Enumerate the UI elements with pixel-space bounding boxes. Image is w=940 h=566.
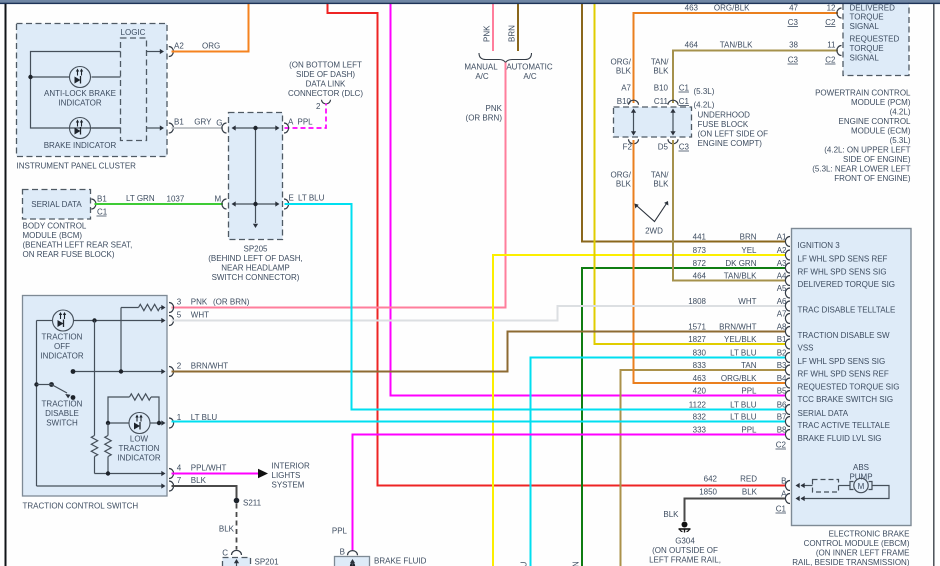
svg-text:B10: B10 — [654, 84, 669, 93]
fuse block cavity labels top — [617, 84, 715, 110]
interior lights system label — [272, 462, 310, 490]
low traction resistor loop — [108, 394, 159, 423]
svg-text:DATA LINK: DATA LINK — [306, 80, 346, 89]
labels manual/automatic A/C — [464, 63, 553, 82]
wire RED from top to EBCM pin B — [328, 4, 786, 486]
SP205 connector E — [284, 194, 325, 210]
svg-text:3: 3 — [177, 298, 182, 307]
svg-text:12: 12 — [827, 4, 836, 13]
svg-text:A2: A2 — [777, 246, 787, 255]
svg-text:MODULE (PCM): MODULE (PCM) — [851, 98, 911, 107]
svg-text:SYSTEM: SYSTEM — [272, 481, 305, 490]
svg-text:B: B — [340, 548, 345, 557]
SP205 connector G — [222, 123, 227, 133]
EBCM pin B3 row — [693, 361, 889, 379]
splice SP205 box — [229, 113, 283, 240]
wire PNK manual A/C drop — [492, 4, 494, 51]
SP205 junction node M/E row — [253, 202, 257, 206]
svg-text:A/C: A/C — [523, 72, 537, 81]
svg-text:YEL: YEL — [741, 246, 757, 255]
svg-text:G304: G304 — [675, 537, 695, 546]
svg-text:2: 2 — [316, 102, 321, 111]
traction control switch box — [23, 296, 168, 511]
svg-text:SWITCH CONNECTOR): SWITCH CONNECTOR) — [212, 273, 300, 282]
svg-text:LOGIC: LOGIC — [121, 28, 146, 37]
junction node on IPC anti-lock row — [28, 75, 32, 79]
fuse block connector F2 — [629, 139, 639, 144]
svg-text:830: 830 — [693, 349, 707, 358]
svg-text:UNDERHOOD: UNDERHOOD — [698, 111, 751, 120]
junction node pin2/resistor riser — [119, 369, 123, 373]
left page border — [5, 4, 7, 566]
svg-text:420: 420 — [693, 387, 707, 396]
wire YEL/BLK 1827 from top to EBCM B1 — [595, 4, 786, 344]
EBCM pin A7 row — [777, 310, 790, 324]
wire PPL 420 from top to EBCM B5 — [391, 4, 786, 396]
svg-text:MODULE (ECM): MODULE (ECM) — [851, 127, 911, 136]
svg-text:ABS: ABS — [853, 463, 869, 472]
svg-text:441: 441 — [693, 233, 707, 242]
svg-text:ENGINE CONTROL: ENGINE CONTROL — [838, 117, 911, 126]
wire GRY from IPC B1 to SP205 G — [172, 118, 224, 129]
svg-text:C2: C2 — [825, 56, 836, 65]
svg-text:BLK: BLK — [616, 67, 632, 76]
2WD note arrows — [635, 201, 669, 236]
svg-text:BLK: BLK — [663, 510, 679, 519]
svg-text:(5.3L): (5.3L) — [890, 136, 911, 145]
svg-text:TORQUE: TORQUE — [850, 13, 884, 22]
svg-text:DK GRN: DK GRN — [725, 259, 756, 268]
svg-text:SIDE OF ENGINE): SIDE OF ENGINE) — [843, 155, 911, 164]
svg-text:TRACTION DISABLE SW: TRACTION DISABLE SW — [798, 331, 890, 340]
svg-text:DISABLE: DISABLE — [45, 409, 79, 418]
node pin2 contact — [71, 369, 76, 374]
vertical branch from pin5 row — [94, 321, 96, 436]
ABS pump internal circuit — [796, 478, 890, 501]
pin 4 row wire — [95, 471, 166, 476]
svg-text:TAN: TAN — [741, 361, 757, 370]
svg-text:642: 642 — [704, 475, 718, 484]
svg-text:PPL: PPL — [741, 387, 757, 396]
svg-text:C1: C1 — [679, 97, 690, 106]
svg-text:B1: B1 — [174, 118, 184, 127]
svg-text:7: 7 — [177, 476, 182, 485]
EBCM pin B7 row — [693, 413, 890, 431]
EBCM pin A2 row — [693, 246, 888, 264]
DLC cavity 2 connector — [316, 100, 330, 111]
wire DK GRN 872 to EBCM A3 — [582, 268, 785, 566]
svg-text:463: 463 — [693, 374, 707, 383]
svg-text:ON REAR FUSE BLOCK): ON REAR FUSE BLOCK) — [23, 250, 115, 259]
svg-text:B3: B3 — [777, 361, 787, 370]
svg-text:A2: A2 — [174, 42, 184, 51]
wire TAN/BLK 464 to PCM — [673, 41, 838, 104]
svg-text:11: 11 — [827, 41, 836, 50]
svg-text:LOW: LOW — [130, 435, 149, 444]
traction off indicator LED — [40, 310, 83, 361]
svg-text:M: M — [215, 195, 222, 204]
svg-text:INDICATOR: INDICATOR — [58, 99, 101, 108]
svg-text:REQUESTED TORQUE SIG: REQUESTED TORQUE SIG — [798, 383, 900, 392]
EBCM pin A4 row — [693, 272, 895, 290]
switch internal wiring left bus — [37, 318, 166, 486]
SP205 connector M — [222, 199, 227, 209]
svg-text:SWITCH: SWITCH — [46, 419, 78, 428]
svg-text:(5.3L: NEAR LOWER LEFT: (5.3L: NEAR LOWER LEFT — [812, 165, 910, 174]
svg-text:TRACTION CONTROL SWITCH: TRACTION CONTROL SWITCH — [23, 502, 139, 511]
svg-text:TCC BRAKE SWITCH SIG: TCC BRAKE SWITCH SIG — [798, 395, 894, 404]
splice S211 — [234, 498, 262, 508]
svg-text:B5: B5 — [777, 387, 787, 396]
SP205 junction node G/A row — [253, 126, 257, 130]
svg-text:LT GRN: LT GRN — [126, 194, 155, 203]
svg-text:47: 47 — [789, 4, 798, 13]
svg-text:PNK: PNK — [483, 25, 492, 42]
svg-text:WHT: WHT — [191, 311, 209, 320]
svg-text:B4: B4 — [777, 374, 787, 383]
EBCM connector ref C1 — [776, 505, 787, 514]
electronic brake control module (EBCM) box — [792, 229, 912, 526]
svg-text:PPL/WHT: PPL/WHT — [191, 464, 227, 473]
wire TAN 833 from EBCM B3 to bottom — [621, 370, 786, 566]
svg-text:BRN/WHT: BRN/WHT — [191, 362, 228, 371]
svg-text:SP205: SP205 — [243, 245, 268, 254]
svg-text:F2: F2 — [623, 143, 633, 152]
svg-text:TAN/BLK: TAN/BLK — [720, 41, 753, 50]
svg-text:C3: C3 — [679, 143, 690, 152]
svg-text:B2: B2 — [777, 349, 787, 358]
svg-text:BRN: BRN — [508, 25, 517, 42]
svg-text:BRAKE INDICATOR: BRAKE INDICATOR — [44, 141, 117, 150]
svg-text:832: 832 — [693, 413, 707, 422]
svg-text:ELECTRONIC BRAKE: ELECTRONIC BRAKE — [829, 530, 910, 539]
EBCM caption — [792, 530, 910, 566]
switch pin connectors 3 5 2 1 4 7 — [169, 298, 182, 492]
svg-text:FUSE BLOCK: FUSE BLOCK — [698, 120, 749, 129]
fuse block internal arrows — [631, 109, 676, 136]
svg-text:1808: 1808 — [688, 297, 706, 306]
wire TAN/BLK 464 to EBCM A4 — [673, 140, 785, 281]
svg-text:ORG/BLK: ORG/BLK — [714, 4, 750, 13]
fuse block connector B10/C11 — [668, 100, 678, 105]
svg-text:BRAKE FLUID: BRAKE FLUID — [374, 557, 427, 566]
svg-text:MODULE (BCM): MODULE (BCM) — [23, 231, 83, 240]
svg-text:BLK: BLK — [219, 525, 235, 534]
traction disable switch — [34, 382, 82, 427]
svg-text:BLK: BLK — [653, 180, 669, 189]
svg-text:872 DK GRN: 872 DK GRN — [572, 561, 581, 566]
svg-text:SERIAL DATA: SERIAL DATA — [31, 200, 82, 209]
EBCM connector ref C2 — [776, 441, 787, 450]
svg-text:B1: B1 — [97, 195, 107, 204]
svg-text:TRAC DISABLE TELLTALE: TRAC DISABLE TELLTALE — [798, 306, 896, 315]
EBCM pin A1 row — [693, 233, 841, 251]
svg-text:ENGINE COMPT): ENGINE COMPT) — [698, 139, 763, 148]
resistor to pin 3 — [121, 304, 166, 371]
right page border — [933, 4, 935, 566]
svg-text:INDICATOR: INDICATOR — [40, 352, 83, 361]
wire WHT 1808 pin5 to EBCM A6 — [172, 306, 786, 321]
brake fluid level switch caption — [374, 557, 433, 566]
svg-text:A5: A5 — [777, 284, 787, 293]
ABS pump label — [849, 463, 872, 482]
svg-text:C1: C1 — [97, 208, 108, 217]
low traction indicator LED — [108, 413, 166, 463]
wire ORG/BLK 463 to PCM — [634, 4, 839, 104]
EBCM pin B8 row — [693, 426, 882, 444]
svg-text:2: 2 — [177, 362, 182, 371]
svg-text:A/C: A/C — [475, 72, 489, 81]
svg-text:TAN/BLK: TAN/BLK — [724, 272, 757, 281]
svg-text:LEFT FRAME RAIL,: LEFT FRAME RAIL, — [649, 556, 721, 565]
SP205 caption — [208, 245, 303, 283]
EBCM pin A8 row — [688, 323, 890, 341]
svg-text:C2: C2 — [825, 18, 836, 27]
svg-text:S211: S211 — [243, 499, 262, 508]
svg-text:E: E — [289, 194, 294, 203]
wire BLK dashed to SP201 — [219, 504, 237, 550]
svg-text:LT BLU: LT BLU — [730, 349, 757, 358]
IPC internal wiring — [31, 52, 121, 129]
svg-text:A3: A3 — [777, 259, 787, 268]
svg-text:(4.2L): (4.2L) — [890, 108, 911, 117]
svg-text:(5.3L): (5.3L) — [694, 87, 715, 96]
svg-text:(OR BRN): (OR BRN) — [466, 114, 503, 123]
svg-text:38: 38 — [789, 41, 798, 50]
ground G304 caption — [647, 537, 723, 566]
svg-text:GRY: GRY — [194, 118, 212, 127]
wire LT BLU 830 from EBCM B2 to bottom — [531, 358, 786, 566]
EBCM pin A6 row — [688, 297, 895, 315]
svg-text:RAIL, BESIDE TRANSMISSION): RAIL, BESIDE TRANSMISSION) — [792, 558, 910, 566]
svg-text:ANTI-LOCK BRAKE: ANTI-LOCK BRAKE — [44, 89, 116, 98]
anti-lock brake indicator LED — [44, 67, 116, 108]
SP201 connector C — [222, 549, 241, 558]
PCM signal labels — [850, 3, 900, 62]
svg-text:TORQUE: TORQUE — [850, 44, 884, 53]
SP205 internal bus — [232, 125, 280, 228]
EBCM pin B4 row — [693, 374, 900, 392]
svg-text:FRONT OF ENGINE): FRONT OF ENGINE) — [834, 174, 911, 183]
svg-text:PPL: PPL — [741, 426, 757, 435]
svg-text:C2: C2 — [776, 441, 787, 450]
svg-text:IGNITION 3: IGNITION 3 — [798, 241, 841, 250]
svg-text:BLK: BLK — [742, 488, 758, 497]
svg-text:TRACTION: TRACTION — [42, 400, 83, 409]
svg-text:B7: B7 — [777, 413, 787, 422]
svg-text:(ON BOTTOM LEFT: (ON BOTTOM LEFT — [289, 61, 362, 70]
svg-text:INSTRUMENT PANEL CLUSTER: INSTRUMENT PANEL CLUSTER — [17, 162, 137, 171]
wire BLK pin7 to S211 — [172, 486, 237, 499]
wire BRN 441 from top to EBCM A1 — [582, 4, 785, 242]
junction node pin4 row — [106, 471, 110, 475]
svg-text:2WD: 2WD — [645, 227, 663, 236]
svg-text:RF WHL SPD SENS REF: RF WHL SPD SENS REF — [798, 370, 889, 379]
svg-text:B8: B8 — [777, 426, 787, 435]
wire BRN automatic A/C drop — [517, 4, 519, 51]
svg-text:BRAKE FLUID LVL SIG: BRAKE FLUID LVL SIG — [798, 434, 882, 443]
svg-text:A: A — [288, 118, 294, 127]
svg-text:5: 5 — [177, 311, 182, 320]
svg-text:NEAR HEADLAMP: NEAR HEADLAMP — [221, 264, 289, 273]
svg-text:POWERTRAIN CONTROL: POWERTRAIN CONTROL — [815, 89, 911, 98]
svg-text:DELIVERED TORQUE SIG: DELIVERED TORQUE SIG — [798, 280, 896, 289]
EBCM pin A3 row — [693, 259, 887, 277]
svg-text:(BENEATH LEFT REAR SEAT,: (BENEATH LEFT REAR SEAT, — [23, 241, 133, 250]
svg-text:C3: C3 — [788, 18, 799, 27]
svg-text:A7: A7 — [777, 310, 787, 319]
svg-text:PPL: PPL — [332, 527, 348, 536]
instrument panel cluster box — [17, 24, 168, 171]
svg-text:C3: C3 — [788, 56, 799, 65]
brace joining A/C wires — [479, 53, 532, 63]
top toolbar bar — [0, 0, 940, 4]
svg-text:C11: C11 — [654, 97, 669, 106]
svg-text:TRACTION: TRACTION — [42, 333, 83, 342]
svg-text:873: 873 — [693, 246, 707, 255]
svg-text:LT BLU: LT BLU — [730, 413, 757, 422]
brake indicator LED — [44, 118, 117, 151]
svg-text:1850: 1850 — [699, 488, 717, 497]
wire RED 642 labels — [704, 475, 758, 484]
wire YEL 873 from bottom to EBCM A2 — [493, 255, 785, 566]
wire ORG/BLK 463 from fuse block to EBCM B4 — [634, 140, 786, 383]
svg-text:WHT: WHT — [738, 297, 756, 306]
EBCM pin A5 row — [777, 284, 790, 298]
svg-text:464: 464 — [693, 272, 707, 281]
brake fluid level switch box — [335, 557, 370, 566]
svg-text:ORG/: ORG/ — [611, 171, 632, 180]
pin 7 row wire — [37, 483, 166, 488]
svg-text:LT BLU: LT BLU — [298, 194, 325, 203]
svg-text:LF WHL SPD SENS REF: LF WHL SPD SENS REF — [798, 255, 888, 264]
svg-text:1827: 1827 — [688, 335, 706, 344]
svg-text:A1: A1 — [777, 233, 787, 242]
svg-text:(4.2L): (4.2L) — [694, 101, 715, 110]
svg-text:1122: 1122 — [689, 401, 707, 410]
svg-text:CONTROL MODULE (EBCM): CONTROL MODULE (EBCM) — [804, 539, 910, 548]
svg-text:ORG/: ORG/ — [611, 58, 632, 67]
svg-text:PNK: PNK — [191, 298, 208, 307]
wire LT BLU from SP205 E to EBCM B6 — [285, 204, 786, 410]
svg-text:333: 333 — [693, 426, 707, 435]
ground G304 — [679, 522, 691, 533]
svg-text:LIGHTS: LIGHTS — [272, 471, 301, 480]
svg-text:AUTOMATIC: AUTOMATIC — [506, 63, 553, 72]
svg-text:BRN/WHT: BRN/WHT — [719, 323, 756, 332]
svg-text:INDICATOR: INDICATOR — [117, 454, 160, 463]
svg-text:M: M — [858, 482, 865, 491]
wire LT GRN 1037 from BCM to SP205 M — [95, 194, 224, 204]
svg-text:VSS: VSS — [798, 344, 814, 353]
EBCM pin B1 row — [688, 335, 813, 353]
wire PPL dashed from SP205 A to DLC — [285, 104, 327, 129]
svg-text:YEL/BLK: YEL/BLK — [724, 335, 757, 344]
BCM caption — [23, 222, 133, 260]
wire ORG from IPC A2 to top — [172, 4, 249, 52]
pin 2 row wire — [73, 369, 166, 374]
svg-text:C1: C1 — [776, 505, 787, 514]
svg-text:(ON INNER LEFT FRAME: (ON INNER LEFT FRAME — [816, 549, 910, 558]
underhood fuse block box — [614, 107, 692, 137]
svg-text:TRAC ACTIVE TELLTALE: TRAC ACTIVE TELLTALE — [798, 421, 890, 430]
svg-text:SP201: SP201 — [255, 558, 280, 566]
wire BLK 1850 to ground — [663, 488, 785, 522]
splice SP201 box — [223, 558, 280, 566]
wire PPL 333 from EBCM B8 to brake fluid level switch — [332, 435, 785, 551]
SP205 connector A — [284, 123, 289, 133]
svg-text:TAN/: TAN/ — [651, 58, 669, 67]
svg-text:B6: B6 — [777, 401, 787, 410]
svg-text:A4: A4 — [777, 272, 787, 281]
svg-text:RED: RED — [740, 475, 757, 484]
EBCM pin B2 row — [693, 349, 886, 367]
EBCM pin B connector — [781, 477, 790, 491]
junction node pin5 row — [92, 318, 96, 322]
svg-text:LF WHL SPD SENS SIG: LF WHL SPD SENS SIG — [798, 357, 886, 366]
svg-text:830 LT BLU: 830 LT BLU — [520, 561, 529, 566]
EBCM pin B5 row — [693, 387, 893, 405]
svg-text:C1: C1 — [679, 84, 690, 93]
svg-text:MANUAL: MANUAL — [464, 63, 498, 72]
svg-text:BLK: BLK — [616, 180, 632, 189]
switch connector B — [340, 548, 358, 557]
resistor left branch — [91, 436, 97, 457]
wire PPL/WHT pin4 to interior lights — [172, 469, 269, 478]
svg-text:SIDE OF DASH): SIDE OF DASH) — [296, 70, 355, 79]
EBCM pin B6 row — [689, 401, 849, 419]
body control module (BCM) box — [23, 190, 91, 220]
svg-text:REQUESTED: REQUESTED — [850, 35, 900, 44]
svg-text:BLK: BLK — [191, 476, 207, 485]
svg-text:463: 463 — [685, 4, 699, 13]
wire LT BLU 832 pin1 to EBCM B7 — [172, 421, 786, 423]
IPC pin B1 connector — [147, 118, 185, 134]
svg-text:(ON LEFT SIDE OF: (ON LEFT SIDE OF — [698, 130, 769, 139]
svg-text:CONNECTOR (DLC): CONNECTOR (DLC) — [288, 89, 363, 98]
svg-text:A7: A7 — [621, 84, 631, 93]
svg-text:464: 464 — [685, 41, 699, 50]
svg-text:(BEHIND LEFT OF DASH,: (BEHIND LEFT OF DASH, — [208, 254, 303, 263]
logic module sub-box — [121, 28, 147, 141]
wire BRN/WHT 1571 pin2 to EBCM A8 — [172, 332, 786, 372]
svg-text:B1: B1 — [777, 335, 787, 344]
svg-text:TAN/: TAN/ — [651, 171, 669, 180]
wire labels ORG/BLK TAN/BLK above fuse block — [611, 58, 670, 76]
PCM connector 38/11 — [837, 46, 842, 56]
svg-text:SIGNAL: SIGNAL — [850, 54, 880, 63]
svg-text:BLK: BLK — [653, 67, 669, 76]
svg-text:833: 833 — [693, 361, 707, 370]
svg-text:PNK: PNK — [486, 104, 503, 113]
svg-text:SIGNAL: SIGNAL — [850, 22, 880, 31]
svg-text:(4.2L: ON UPPER LEFT: (4.2L: ON UPPER LEFT — [824, 146, 910, 155]
svg-text:LT BLU: LT BLU — [730, 401, 757, 410]
fuse block connector D5/C3 — [668, 139, 678, 144]
svg-text:ORG: ORG — [202, 42, 220, 51]
svg-text:A6: A6 — [777, 297, 787, 306]
svg-text:DELIVERED: DELIVERED — [850, 3, 896, 12]
svg-text:B: B — [781, 477, 786, 486]
wire PNK (OR BRN) to traction switch pin 3 — [172, 63, 506, 308]
svg-text:SERIAL DATA: SERIAL DATA — [798, 409, 849, 418]
PCM caption — [812, 89, 911, 184]
fuse block connector A7/B10 — [629, 100, 639, 105]
svg-text:INTERIOR: INTERIOR — [272, 462, 310, 471]
svg-text:1571: 1571 — [688, 323, 706, 332]
PCM connector 47/12 — [837, 8, 842, 18]
svg-text:C: C — [222, 549, 228, 558]
